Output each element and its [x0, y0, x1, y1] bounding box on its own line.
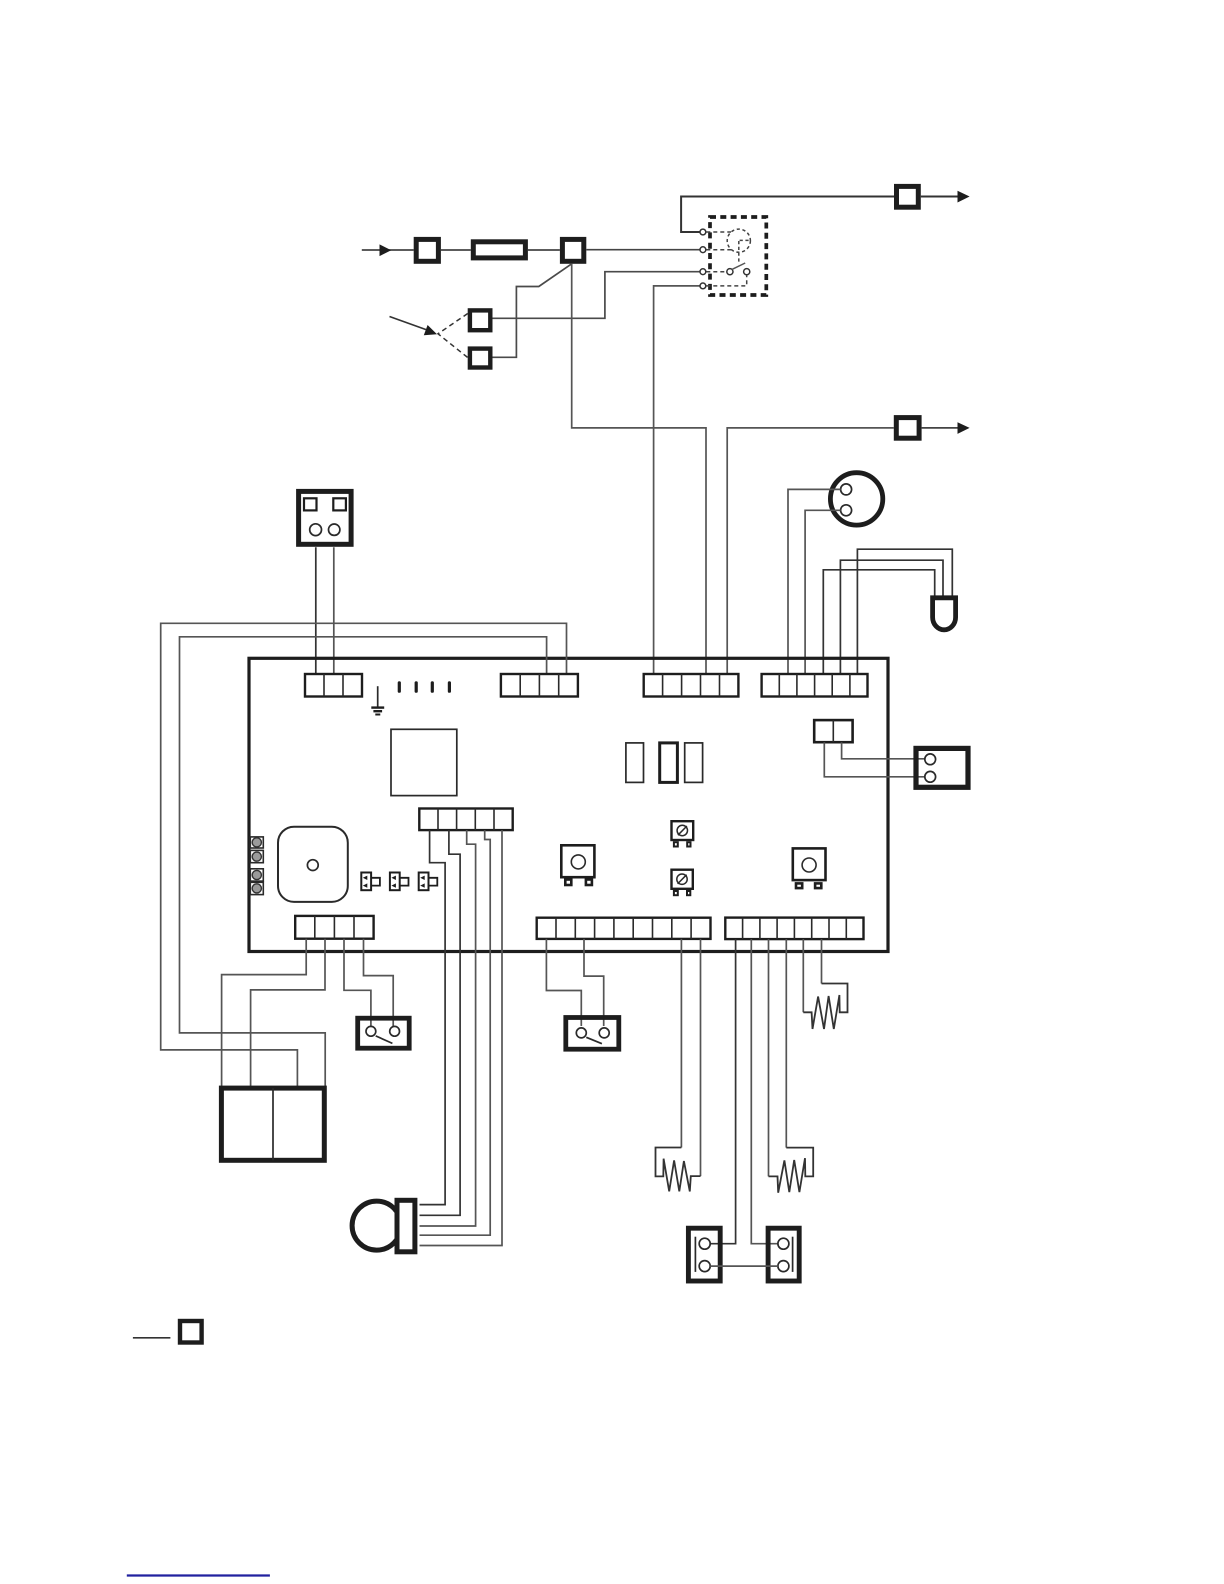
wire: P8 pin3 to pressure switch PS1: [584, 939, 604, 1026]
board connector P2 (4 pos): [501, 674, 578, 697]
switch throw contact: [744, 269, 750, 275]
wire: J2 bottom down and right to board connector P3 pin4: [572, 264, 706, 676]
LED indicator bars: [398, 683, 401, 691]
pressure switch PS1: [566, 1018, 619, 1050]
igniter IGN (dome): [933, 598, 956, 630]
arrow: incoming power arrowhead: [380, 244, 392, 256]
wire: P8 pin8 to heater resistor R1: [680, 939, 682, 1148]
capacitor C1: [626, 743, 644, 783]
dashed bracket to splice boxes SP1/SP2: [438, 314, 468, 358]
dashed lead t1 to lamp: [706, 231, 731, 233]
wire: P6 pin4 to LED lead 4: [420, 830, 491, 1235]
wire: J1 to disconnect F1: [441, 249, 471, 251]
heater resistor R2 (zigzag): [769, 1148, 814, 1193]
wire: P9 pin4 to heater resistor R2: [785, 939, 787, 1148]
wire: P8 pin1 to pressure switch PS1: [546, 939, 581, 1026]
CN1 pin lower: [925, 771, 936, 782]
edge pad E3: [250, 869, 263, 881]
wire: P5 pin2 to molex CN1 upper pin: [842, 742, 926, 759]
dashed lead t3 to switch pole: [706, 271, 726, 273]
buzzer BZ1 (rounded square): [278, 827, 348, 902]
edge pad E2: [250, 850, 263, 862]
junction box J2: [562, 239, 583, 261]
wire: motor pin a to connector P4 pin2: [788, 489, 841, 676]
wire: P6 pin3 to LED lead 3: [420, 830, 476, 1226]
status connector P6 (5 pos, mid-board): [419, 809, 512, 831]
board connector P8 (9 pos, bottom middle): [537, 918, 711, 939]
T1 square pin 2: [333, 498, 346, 510]
wire: SP1 to door switch terminal 3: [493, 272, 700, 319]
fuse/disconnect F1: [473, 242, 525, 258]
chassis ground symbol: [377, 686, 379, 707]
T1 round pin 2: [329, 524, 340, 535]
jumper JP2: [390, 873, 409, 891]
diagnostic LED1 (lamp with base): [352, 1201, 401, 1250]
board connector P1 (3 pos): [305, 674, 362, 697]
arrow: pointer to field splice options: [390, 317, 429, 331]
board connector P4 (6 pos): [762, 674, 868, 697]
aux connector P5 (2 pos): [814, 720, 852, 742]
dashed link lamp to switch blade: [738, 241, 740, 264]
motor pin a: [841, 484, 852, 495]
terminal block TB1: [688, 1228, 720, 1281]
inducer motor M1 (circle): [830, 473, 882, 525]
wire: P6 pin5 to LED lead 5: [420, 830, 503, 1245]
transistor Q1: [561, 845, 594, 877]
wire: connector P4 pin5 to igniter (middle loop): [840, 560, 943, 676]
jumper JP1: [361, 873, 380, 891]
wire: line-voltage feed into J1: [362, 249, 414, 251]
wire: P9 pin2 to terminal block TB2: [751, 939, 778, 1244]
legend junction box symbol: [180, 1321, 202, 1343]
transformer TR1: [221, 1088, 324, 1160]
relay K1 (large square): [391, 729, 457, 795]
capacitor C2: [660, 743, 678, 783]
wire: P7 pin1 to transformer TR1: [222, 939, 307, 1088]
dashed lead t4 under switch: [706, 275, 746, 286]
splice box SP2: [470, 349, 490, 368]
wire: P6 pin1 to LED lead 1: [420, 830, 446, 1205]
wire: P9 pin6 to heater resistor R3: [821, 939, 823, 983]
terminal t4 of DS1: [700, 283, 706, 289]
junction box J1: [416, 239, 438, 261]
BZ1 centre hole: [307, 860, 318, 871]
wire: P6 pin2 to LED lead 2: [420, 830, 461, 1215]
wire+arrow: hot output: [921, 196, 959, 198]
wire: F1 to junction box J2: [528, 249, 560, 251]
wire: P7 pin4 to limit switch LS1: [364, 939, 394, 1026]
wire: T1 to board connector P1 pin1: [315, 547, 317, 676]
heater resistor R1 (zigzag): [656, 1148, 701, 1192]
terminal t1 of DS1: [700, 229, 706, 235]
wire: board connector P3 pin1 up to door switch terminal 4: [654, 286, 700, 676]
heater resistor R3 (zigzag): [803, 984, 847, 1030]
limit switch LS1: [358, 1018, 410, 1048]
wire: motor pin b to connector P4 pin3: [805, 510, 841, 676]
edge pad E4: [250, 882, 263, 894]
trimmer pot VR2: [672, 870, 693, 889]
switch blade: [732, 263, 746, 270]
control board outline: [249, 658, 888, 951]
capacitor C3: [685, 743, 703, 783]
wire: board connector P3 pin5 to 24V output arrow: [727, 428, 894, 676]
switch pole contact: [727, 269, 733, 275]
transistor Q2: [793, 848, 826, 880]
dashed stub right of lamp centre: [740, 239, 751, 241]
junction box J4 (24V output): [896, 418, 919, 439]
wire: J2 to door switch terminal 2: [586, 249, 700, 251]
board connector P3 (5 pos): [644, 674, 739, 697]
wire: P9 pin1 to terminal block TB1: [710, 939, 735, 1244]
board connector P7 (4 pos, bottom left): [295, 916, 373, 939]
wire: connector P4 pin4 to igniter (outer loop): [823, 570, 934, 676]
footer rule (blue): [127, 1574, 270, 1576]
thermostat plug T1 (4-pin): [299, 491, 352, 544]
jumper JP3: [419, 873, 438, 891]
junction box J3 (hot output): [897, 186, 919, 207]
terminal t3 of DS1: [700, 269, 706, 275]
trimmer pot VR1: [672, 821, 694, 840]
wire: P7 pin3 to limit switch LS1: [344, 939, 371, 1026]
door interlock switch DS1 (dashed enclosure): [710, 217, 766, 295]
legend sample wire: [133, 1337, 171, 1339]
T1 square pin 1: [304, 498, 317, 510]
wire: door switch terminal 1 to output arrow (hot out): [681, 197, 894, 233]
wire: P9 pin5 to heater resistor R3: [802, 939, 804, 1012]
motor pin b: [841, 505, 852, 516]
splice box SP1: [470, 310, 490, 330]
lamp L1 inside DS1 (dashed circle): [727, 229, 750, 252]
board connector P9 (8 pos, bottom right): [725, 918, 863, 940]
wire: P9 pin3 to heater resistor R2: [768, 939, 770, 1176]
edge pad E1: [250, 837, 263, 848]
wire: T1 to board connector P1 pin2: [333, 547, 335, 676]
wire: P7 pin2 to transformer TR1: [251, 939, 325, 1088]
dashed lead t2 to lamp: [706, 249, 731, 251]
CN1 pin upper: [925, 754, 936, 765]
terminal t2 of DS1: [700, 247, 706, 253]
terminal block TB2: [768, 1228, 799, 1281]
wire: connector P2 pin3 left loop to transformer TR1: [180, 637, 547, 1088]
wire: TB1 to TB2 link: [710, 1265, 778, 1267]
molex connector CN1: [916, 748, 968, 787]
wire: connector P2 pin4 outer left loop to transformer TR1: [161, 623, 567, 1088]
wire: P5 pin1 to molex CN1 lower pin: [824, 742, 926, 777]
wire: P8 pin9 to heater resistor R1: [700, 939, 702, 1176]
T1 round pin 1: [310, 524, 322, 536]
wire: connector P4 pin6 to igniter (inner loop): [857, 549, 952, 676]
wire: SP2 to J2 bottom (diagonal): [493, 264, 572, 358]
wire+arrow: 24V output: [922, 427, 959, 429]
